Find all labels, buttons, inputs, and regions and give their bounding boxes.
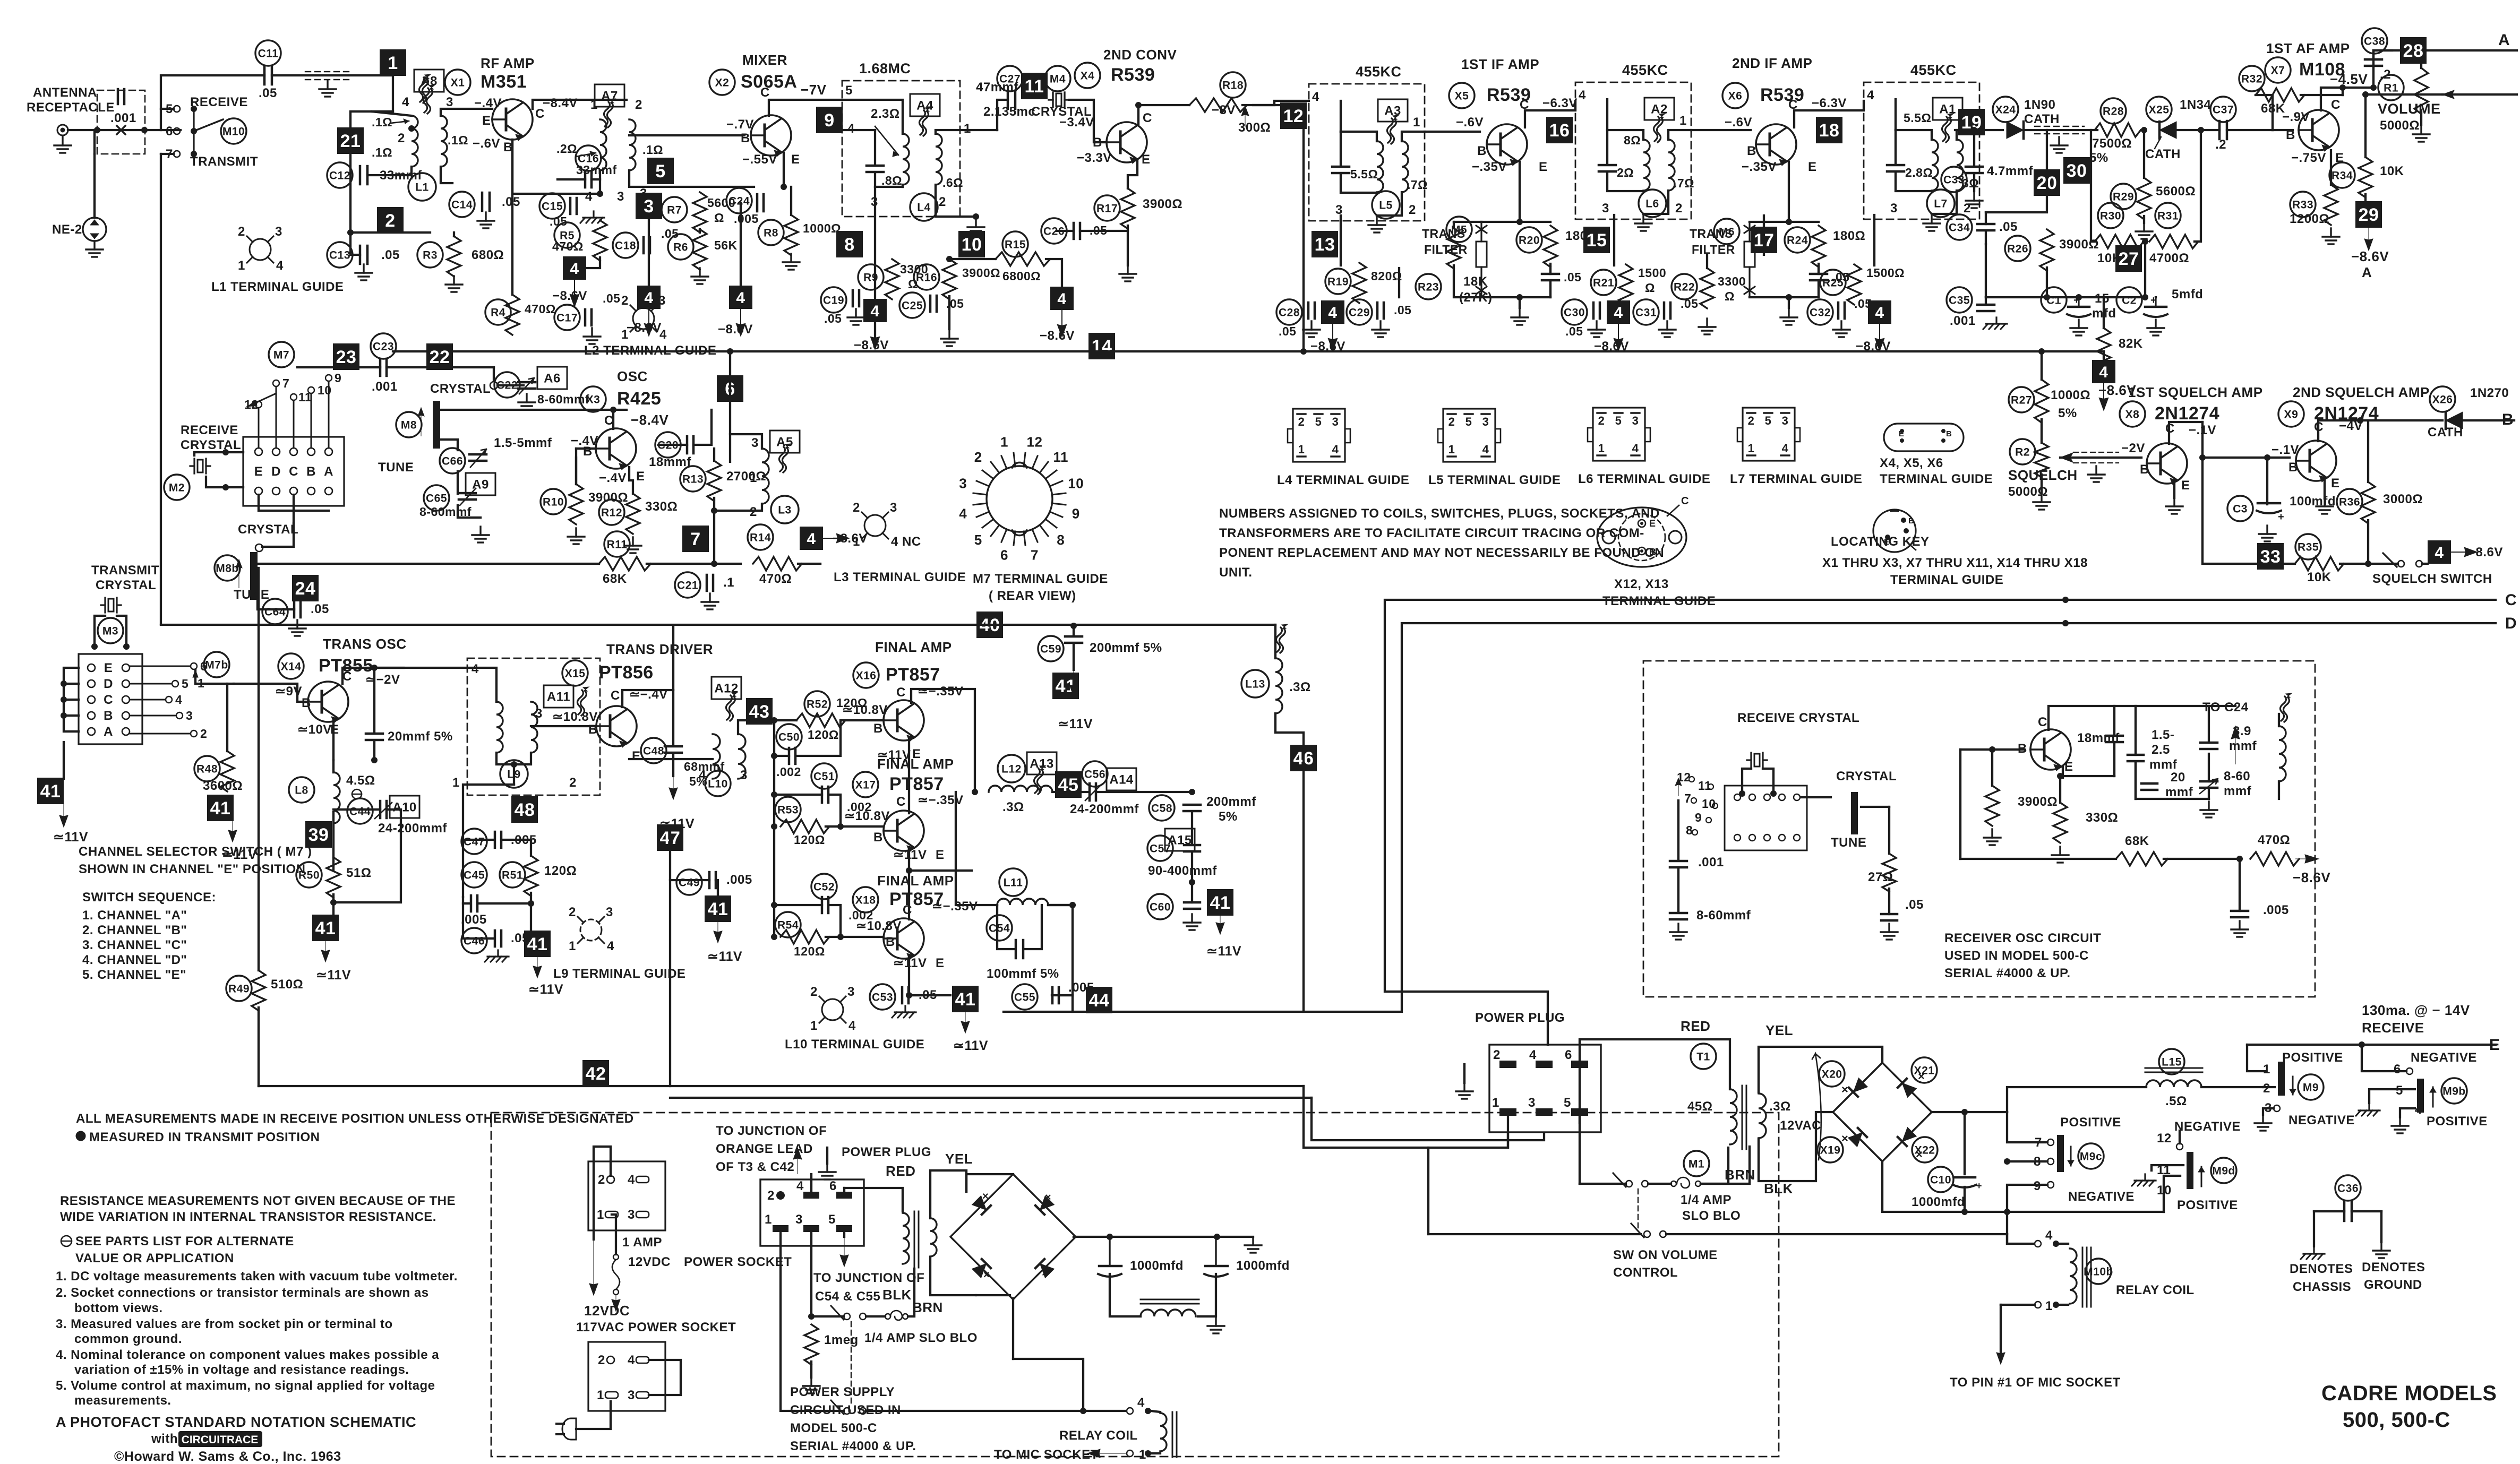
wire 3900 up — [1991, 750, 1993, 786]
svg-text:3: 3 — [1332, 415, 1339, 428]
value .1ohm L2 — [642, 143, 663, 157]
pin E x9 — [2331, 476, 2340, 490]
svg-text:mmf: mmf — [2224, 784, 2252, 798]
wire c36 l — [2314, 1210, 2344, 1212]
svg-text:C64: C64 — [264, 606, 286, 618]
label seq2 — [82, 923, 187, 937]
svg-text:3: 3 — [186, 709, 193, 722]
junction bus14 a — [727, 348, 733, 355]
ground C33 — [1966, 192, 1983, 208]
wire r16 c25 — [948, 296, 950, 329]
component label C37 — [2210, 97, 2236, 122]
wire m9 12w — [2179, 1131, 2181, 1143]
svg-text:A14: A14 — [1109, 772, 1134, 787]
wire x16 emit w — [908, 738, 910, 811]
value 5000 r2 — [2008, 485, 2048, 499]
pin 11 m9 — [2157, 1163, 2171, 1177]
coil L12 — [989, 786, 1052, 792]
label 1ST IF AMP — [1461, 56, 1539, 72]
resistor R48 — [220, 751, 234, 791]
voltage -6.3V X6 — [1812, 96, 1847, 110]
pin 2 m9 — [2263, 1081, 2270, 1096]
wire L2 pri bottom — [599, 170, 601, 194]
wire c10 v — [1964, 1112, 1966, 1174]
svg-text:1: 1 — [590, 98, 598, 112]
capacitor C29 — [1377, 303, 1384, 318]
svg-text:3: 3 — [1782, 414, 1789, 427]
svg-text:14: 14 — [1092, 337, 1112, 357]
relay pin1 — [2035, 1299, 2059, 1313]
value 8ohm L6 — [1624, 133, 1641, 147]
svg-text:.7Ω: .7Ω — [1674, 176, 1694, 190]
wire c29 v — [1398, 268, 1400, 297]
wire x7 coll — [2321, 88, 2373, 110]
capacitor C45 — [471, 895, 477, 911]
junction r36 sw — [2365, 561, 2371, 567]
CircuiTrace junction marker 47 — [657, 824, 683, 851]
svg-text:A7: A7 — [601, 89, 618, 103]
svg-text:1ST AF AMP: 1ST AF AMP — [2266, 40, 2350, 56]
wire i20w4 — [2136, 762, 2209, 799]
slug M8 b — [250, 552, 258, 600]
svg-text:C58: C58 — [1151, 802, 1172, 814]
plug inset pin 6 — [829, 1179, 852, 1199]
chassis c36 — [2301, 1247, 2325, 1259]
transistor X15 — [596, 706, 637, 747]
value 10K r34 — [2380, 164, 2404, 178]
value .1ohm b — [372, 145, 392, 159]
coil L4 primary — [903, 134, 909, 185]
svg-text:6: 6 — [1565, 1048, 1572, 1062]
wire L6 cap — [1606, 130, 1608, 165]
dashed box 1.68MC — [842, 81, 960, 217]
svg-text:FINAL AMP: FINAL AMP — [877, 756, 954, 772]
capacitor C32 — [1838, 303, 1845, 318]
svg-text:R8: R8 — [764, 227, 778, 239]
wire inset emitw — [2060, 767, 2063, 803]
label tojunc c54b — [815, 1289, 880, 1304]
wire m9 8 — [2007, 1160, 2047, 1162]
svg-text:POSITIVE: POSITIVE — [2060, 1115, 2121, 1130]
pin E x8 — [2181, 478, 2190, 493]
squiggle L12 — [1034, 765, 1045, 794]
svg-text:3: 3 — [1602, 201, 1609, 216]
capacitor C10 electrow — [1953, 1177, 1982, 1191]
wire riser — [161, 75, 264, 130]
svg-text:4: 4 — [1867, 88, 1874, 102]
wire X6 coll — [1794, 101, 1864, 127]
svg-text:X14: X14 — [281, 660, 302, 673]
label MIXER — [742, 52, 787, 68]
svg-text:X3: X3 — [586, 393, 601, 406]
capacitor C19 — [853, 290, 859, 306]
svg-text:measurements.: measurements. — [74, 1393, 172, 1408]
svg-text:6: 6 — [2394, 1062, 2401, 1077]
arrow junction c54w — [840, 1237, 848, 1267]
wire inset c18 v — [2113, 706, 2115, 736]
antenna X mark — [117, 126, 125, 134]
svg-text:R51: R51 — [502, 869, 523, 881]
resistor R5 — [593, 220, 607, 261]
CircuiTrace junction marker 45 — [1055, 771, 1082, 798]
pin B X4 — [1093, 135, 1102, 150]
label POSITIVE rw — [2427, 1114, 2488, 1129]
value 45 t1 — [1687, 1099, 1712, 1114]
pin C x8 — [2165, 421, 2175, 436]
value C28 .05 — [1279, 324, 1296, 338]
inset num 10 — [1702, 797, 1716, 811]
svg-text:C57: C57 — [1150, 842, 1171, 855]
wire c3 v — [2266, 458, 2268, 504]
svg-text:2: 2 — [1409, 203, 1416, 217]
terminal guide L4 — [1288, 409, 1350, 462]
svg-text:E: E — [936, 848, 945, 862]
pin1 L9 — [452, 776, 460, 790]
switch wire 10 — [308, 383, 332, 448]
value C16 33mmf — [576, 163, 617, 177]
junction c3 node — [2264, 454, 2270, 461]
svg-text:4: 4 — [659, 328, 667, 342]
svg-text:BRN: BRN — [912, 1299, 943, 1315]
socket label M5 — [1446, 217, 1472, 242]
wire L6 pin3 down — [1613, 215, 1615, 265]
switch pin top 3 — [307, 448, 315, 455]
connector bar 2 — [2417, 1079, 2424, 1113]
svg-text:C: C — [2038, 715, 2047, 729]
svg-text:2: 2 — [238, 225, 245, 239]
svg-text:1: 1 — [388, 53, 398, 73]
switch wire 12 — [244, 398, 262, 448]
label 1N270 — [2470, 386, 2509, 400]
wire crystal link — [262, 523, 294, 547]
switch wire 7 — [273, 376, 289, 448]
svg-text:470Ω: 470Ω — [525, 302, 556, 316]
wire inset c18 dw2 — [2113, 743, 2115, 776]
label NC X6 — [1822, 130, 1843, 145]
label BLK main — [1764, 1181, 1793, 1196]
resistor R50 — [327, 857, 340, 898]
svg-text:≃11V: ≃11V — [53, 830, 88, 845]
component label R12 — [599, 500, 624, 525]
wire block bottoms — [259, 495, 329, 511]
wire c65 g — [458, 505, 481, 518]
inset num 12 — [1677, 770, 1691, 784]
switch pin bottom 3 — [307, 487, 315, 495]
junction c45 r — [528, 900, 534, 907]
wire r10 up — [575, 458, 577, 484]
inset num 11 — [1698, 779, 1711, 793]
svg-text:29: 29 — [2359, 205, 2379, 225]
dashed gang inset — [851, 1322, 852, 1406]
svg-text:10: 10 — [2157, 1183, 2172, 1198]
svg-text:SEE PARTS LIST FOR ALTERNA: SEE PARTS LIST FOR ALTERNATE — [75, 1234, 294, 1248]
value .8ohm — [881, 174, 902, 187]
svg-text:≃11V: ≃11V — [707, 949, 742, 964]
wire m2 to block2 — [226, 486, 243, 488]
wire L4 sec top — [936, 130, 997, 134]
svg-text:.005: .005 — [2263, 903, 2289, 917]
svg-text:R25: R25 — [1822, 277, 1844, 289]
junction m2a — [222, 449, 229, 455]
svg-text:7: 7 — [2035, 1135, 2042, 1150]
wire sw1 1meg — [815, 1315, 844, 1317]
label RELAY COIL r — [2116, 1283, 2195, 1297]
svg-text:5: 5 — [845, 83, 853, 98]
voltage -.6V X1 — [473, 136, 500, 151]
L1 tap arrow — [390, 119, 409, 124]
wire YEL main2 — [1759, 1047, 1882, 1092]
wire b net — [2464, 419, 2514, 421]
pin C x16 — [896, 685, 906, 700]
junction filter6 top — [1786, 219, 1792, 225]
wire c35 v — [1985, 297, 1987, 305]
resistor R53 — [781, 820, 829, 833]
CircuiTrace junction marker 20 — [2034, 169, 2060, 196]
capacitor C66 var — [469, 449, 486, 467]
svg-text:M9d: M9d — [2212, 1165, 2235, 1177]
svg-text:CRYSTAL: CRYSTAL — [181, 438, 241, 452]
svg-text:1. CHANNEL "A": 1. CHANNEL "A" — [82, 908, 187, 923]
wire filter6 top rail — [1750, 221, 1819, 223]
wire pin3 dn inset — [810, 1232, 812, 1316]
wire c38 out — [2373, 49, 2401, 51]
component label L6 — [1639, 190, 1666, 217]
resistor R14 470 — [753, 557, 802, 571]
svg-text:B: B — [588, 722, 598, 737]
wire c48 v — [672, 626, 674, 746]
value 2.5 inset — [2152, 743, 2170, 757]
terminal guide M7 drawing — [959, 434, 1084, 563]
resistor R3 — [447, 236, 461, 277]
voltage -8.6V r27 — [2098, 382, 2136, 398]
component label C66 — [440, 448, 465, 473]
voltage 11V c59 — [1058, 717, 1093, 731]
pin B x3 — [583, 444, 593, 459]
svg-text:R20: R20 — [1519, 234, 1540, 246]
label S065A — [741, 72, 797, 92]
svg-text:5.5Ω: 5.5Ω — [1904, 111, 1931, 125]
wire emit6 to gnd — [1788, 297, 1790, 308]
pin C x7 — [2331, 98, 2341, 112]
wire r13 bot — [713, 498, 715, 511]
pin C x9 — [2314, 420, 2324, 434]
wire r23 join — [1454, 221, 1481, 223]
pin 2 L2 — [635, 98, 642, 112]
bus line 42 — [259, 1085, 1304, 1087]
ground inset plug — [819, 1164, 836, 1179]
component label C14 — [449, 192, 475, 217]
svg-text:.7Ω: .7Ω — [1407, 178, 1428, 192]
wire inset coil botw2 — [2278, 781, 2280, 799]
socket label X1 — [445, 70, 470, 95]
label L5 TERMINAL GUIDE — [1428, 473, 1561, 487]
CircuiTrace junction marker 10 — [958, 231, 985, 257]
note n5 — [56, 1379, 435, 1393]
value 82K — [2119, 337, 2143, 351]
svg-text:C: C — [896, 795, 906, 809]
wire r32 left — [2256, 95, 2273, 130]
svg-text:−2V: −2V — [2121, 441, 2145, 455]
wire plug gnd3 — [1463, 1064, 1465, 1083]
resistor R34 — [2359, 157, 2372, 197]
svg-text:C49: C49 — [679, 876, 700, 889]
svg-text:4: 4 — [1057, 290, 1066, 308]
label PT857 x18 — [889, 889, 944, 909]
svg-text:TRANS OSC: TRANS OSC — [323, 636, 407, 652]
switch pin bottom 4 — [325, 487, 332, 495]
m9 right bar — [2187, 1152, 2193, 1189]
svg-text:7: 7 — [1031, 547, 1039, 563]
component label R8 — [758, 220, 784, 245]
svg-text:1: 1 — [452, 776, 460, 790]
svg-text:C54 & C55: C54 & C55 — [815, 1289, 880, 1304]
wire cap6 bot — [1818, 280, 1820, 297]
svg-text:L1: L1 — [415, 181, 429, 193]
capacitor L5 tune — [1332, 167, 1349, 173]
svg-text:4 NC: 4 NC — [891, 535, 921, 549]
CircuiTrace junction marker 41 — [705, 895, 731, 922]
svg-text:.3Ω: .3Ω — [1769, 1099, 1791, 1114]
svg-text:NEGATIVE: NEGATIVE — [2068, 1190, 2135, 1204]
alignment point A6 — [537, 367, 567, 389]
svg-text:18K: 18K — [1463, 274, 1488, 289]
value c45 .005 — [461, 912, 487, 927]
ground C60g — [1184, 914, 1201, 930]
CircuiTrace junction marker 41 — [37, 778, 64, 804]
svg-text:5: 5 — [1315, 415, 1322, 428]
label channel sel 1 — [79, 845, 312, 859]
component label R11 — [604, 531, 630, 557]
svg-text:C25: C25 — [902, 299, 923, 312]
svg-text:NEGATIVE: NEGATIVE — [2411, 1050, 2477, 1065]
svg-text:X1 THRU X3, X7 THRU X11, X14 T: X1 THRU X3, X7 THRU X11, X14 THRU X18 — [1822, 556, 2088, 570]
value 5.5ohm L7 — [1904, 111, 1931, 125]
component label R53 — [775, 797, 801, 822]
capacitor C55 — [1052, 987, 1059, 1003]
svg-text:−8.6V: −8.6V — [1040, 329, 1075, 343]
svg-text:R13: R13 — [682, 473, 704, 485]
label ps caption3 — [790, 1421, 877, 1435]
svg-text:.1Ω: .1Ω — [372, 145, 392, 159]
svg-text:−.35V: −.35V — [1472, 160, 1507, 174]
wire sw2 relay — [866, 1410, 1126, 1412]
value 68K r32 — [2261, 101, 2285, 116]
socket label M7 — [269, 342, 294, 367]
socket label X26 — [2430, 386, 2455, 412]
svg-text:90-400mmf: 90-400mmf — [1148, 864, 1217, 878]
svg-text:11: 11 — [1025, 76, 1044, 97]
socket label X6 — [1722, 83, 1748, 108]
inset switch blockw — [1725, 786, 1807, 850]
capacitor C25 — [930, 296, 937, 312]
pin2 L3 — [750, 505, 757, 519]
label CATH x24 — [2024, 112, 2060, 126]
socket117 pin 4 — [628, 1353, 649, 1367]
CircuiTrace junction marker 29 — [2355, 201, 2382, 228]
svg-text:1500Ω: 1500Ω — [1866, 266, 1905, 280]
junction c line — [2062, 597, 2069, 603]
svg-text:300Ω: 300Ω — [1238, 120, 1271, 135]
pin E X5 — [1539, 160, 1548, 174]
slug arrow b — [236, 559, 242, 588]
crystal M3 symbol — [101, 598, 121, 613]
wire L3 t — [730, 434, 762, 449]
wire x3 basew — [576, 447, 596, 450]
svg-text:1.5-5mmf: 1.5-5mmf — [494, 436, 552, 450]
wire i860 dn — [2208, 789, 2210, 799]
label POSITIVE m9d — [2177, 1198, 2238, 1212]
svg-text:×: × — [1916, 1148, 1923, 1161]
resistor 1meg — [804, 1324, 818, 1365]
alignment point A12 — [712, 677, 741, 699]
svg-text:470Ω: 470Ω — [552, 239, 584, 253]
svg-text:X2: X2 — [715, 76, 730, 89]
junction filter6 bot — [1786, 294, 1792, 300]
junction marker 4 to -8.6V rail — [718, 286, 753, 337]
choke L15 — [2145, 1068, 2202, 1087]
svg-text:E: E — [936, 956, 945, 970]
resistor R18 — [1189, 98, 1247, 112]
component label L13 — [1241, 670, 1269, 697]
wire x8 to x9 — [2202, 422, 2290, 458]
svg-text:.05: .05 — [1999, 220, 2018, 234]
svg-text:9: 9 — [2034, 1179, 2041, 1193]
svg-text:2: 2 — [750, 505, 757, 519]
svg-text:39: 39 — [308, 825, 329, 845]
pin B x18 — [886, 935, 895, 949]
dashed box 455KC L5 — [1309, 84, 1425, 221]
lamp NE-2 — [83, 218, 106, 241]
wire inset rail2 — [2164, 858, 2240, 860]
wire inset basew — [1960, 748, 2024, 751]
transistor X14 — [308, 682, 348, 723]
svg-text:470Ω: 470Ω — [759, 572, 792, 586]
wire squelch rail — [2202, 458, 2295, 564]
svg-text:3: 3 — [275, 225, 282, 239]
CircuiTrace junction marker 28 — [2400, 37, 2427, 64]
switch pin top 1 — [272, 448, 280, 455]
junction crys b — [1770, 790, 1777, 797]
svg-text:R2: R2 — [2015, 446, 2030, 458]
svg-text:−8.6V: −8.6V — [2293, 869, 2330, 885]
pin3 L5 — [1335, 203, 1343, 217]
wire c50 loop — [774, 755, 789, 757]
svg-text:21: 21 — [340, 131, 361, 151]
label L9 TERMINAL GUIDE — [553, 967, 685, 981]
wire R23 top — [1453, 222, 1455, 228]
value 510 r49 — [271, 977, 303, 992]
svg-text:10: 10 — [962, 235, 982, 255]
wire c1 v — [2078, 296, 2080, 298]
resistor R49 — [252, 970, 265, 1011]
socket label M2 — [164, 475, 190, 500]
value c60 .05 — [1206, 898, 1225, 912]
svg-text:D: D — [2505, 615, 2517, 632]
component label R21 — [1591, 270, 1616, 295]
svg-text:TO JUNCTION OF: TO JUNCTION OF — [716, 1124, 827, 1138]
svg-text:R18: R18 — [1222, 79, 1244, 91]
wire relay inset 4w — [1151, 1411, 1160, 1412]
transistor X17 — [884, 811, 924, 852]
pin 3 m9 — [2265, 1101, 2272, 1115]
wire x3 coll — [612, 410, 614, 429]
svg-text:Ω: Ω — [1725, 289, 1735, 303]
svg-text:×: × — [1841, 1132, 1848, 1145]
capacitor .001 antenna — [118, 89, 124, 104]
svg-text:C14: C14 — [451, 199, 473, 211]
svg-text:−.55V: −.55V — [742, 152, 777, 167]
CircuiTrace junction marker 41 — [952, 986, 979, 1012]
